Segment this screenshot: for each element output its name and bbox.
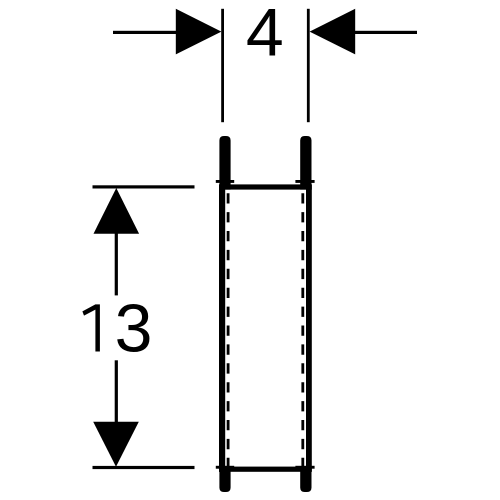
sleeve: left inner wall hidden line	[227, 193, 230, 468]
sleeve: top right collar tab	[300, 136, 311, 190]
dimension 13: top extent line	[93, 185, 195, 188]
dimension 4: right arrowhead	[310, 9, 356, 55]
dimension 4: right extension line	[307, 9, 310, 122]
sleeve: right outer wall	[306, 184, 312, 471]
dimension 13: lower dimension line	[115, 360, 118, 425]
svg-text:3: 3	[115, 290, 153, 366]
sleeve: top left collar tab	[219, 136, 230, 190]
sleeve: top reference tick left	[216, 180, 234, 183]
dimension 13: down arrowhead	[93, 422, 139, 467]
dimension 4: right leader line	[355, 31, 418, 34]
sleeve: top end line	[219, 184, 312, 189]
dimension 13: up arrowhead	[94, 188, 140, 234]
sleeve: left outer wall	[219, 184, 225, 471]
dimension 4: left arrowhead	[176, 9, 222, 55]
sleeve: bottom left collar tab	[219, 467, 230, 492]
dimension 13: bottom extent line	[93, 466, 195, 469]
sleeve: right inner wall hidden line	[301, 193, 304, 468]
sleeve: bottom end line	[219, 467, 312, 472]
sleeve: bottom reference tick right	[295, 466, 314, 469]
sleeve: bottom reference tick left	[216, 466, 234, 469]
sleeve: bottom right collar tab	[300, 467, 311, 492]
dimension 13: value label digit 1	[82, 304, 100, 351]
sleeve: top reference tick right	[295, 180, 314, 183]
dimension 4: left extension line	[221, 9, 224, 122]
svg-text:4: 4	[246, 0, 284, 71]
dimension 4: left leader line	[113, 31, 177, 34]
dimension 13: upper dimension line	[115, 230, 118, 295]
